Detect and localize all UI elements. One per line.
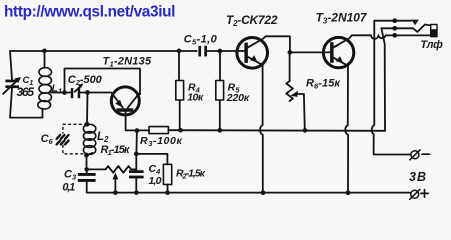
svg-text:3В: 3В	[409, 170, 426, 184]
svg-text:365: 365	[17, 85, 35, 99]
svg-text:0,1: 0,1	[62, 182, 75, 194]
svg-text:R3-100к: R3-100к	[140, 135, 182, 148]
svg-text:1,0: 1,0	[149, 175, 162, 187]
svg-text:Тлф: Тлф	[420, 39, 443, 51]
svg-text:R1-15к: R1-15к	[101, 144, 131, 157]
svg-text:R6-15к: R6-15к	[306, 78, 341, 91]
svg-text:10к: 10к	[187, 91, 204, 103]
svg-text:R2-1,5к: R2-1,5к	[176, 168, 206, 181]
svg-text:http://www.qsl.net/va3iul: http://www.qsl.net/va3iul	[4, 4, 175, 21]
svg-text:220к: 220к	[226, 92, 250, 104]
svg-text:C5-1,0: C5-1,0	[184, 34, 218, 47]
svg-text:C2-500: C2-500	[68, 74, 103, 87]
